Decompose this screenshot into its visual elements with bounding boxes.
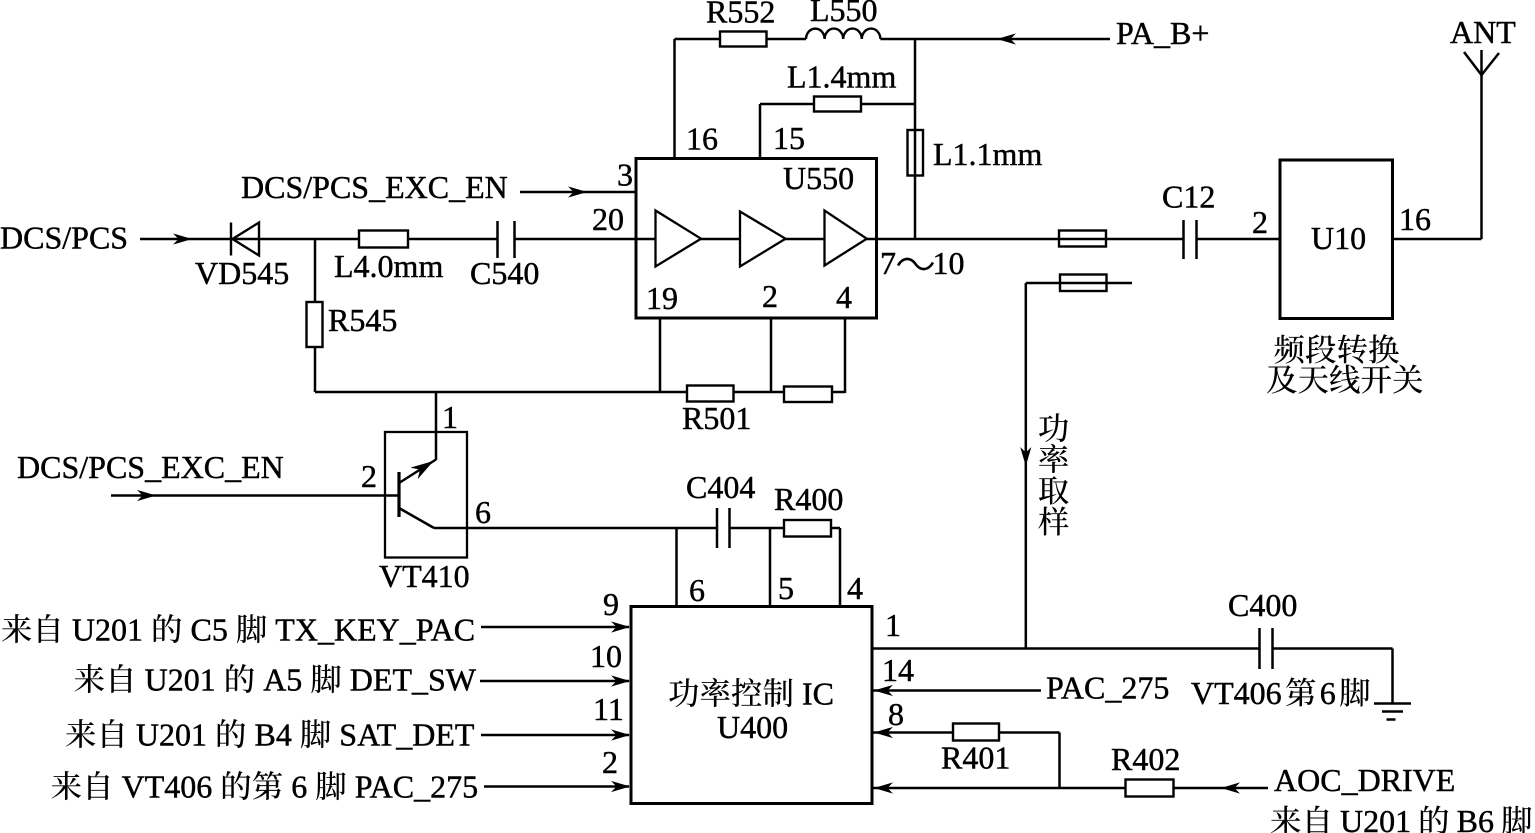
antenna symbol xyxy=(1464,52,1482,75)
capacitor C12 xyxy=(1182,220,1185,259)
wire C540 to U550 pin 20 xyxy=(515,238,638,241)
wire junction to VT410 pin 1 xyxy=(435,392,438,460)
capacitor C540 xyxy=(496,221,499,258)
op-amp IC U550 body xyxy=(636,159,877,319)
svg-text:L4.0mm: L4.0mm xyxy=(334,248,443,284)
wire U400 bottom pin from R402 xyxy=(872,787,1126,790)
resistor R501 xyxy=(687,386,734,402)
svg-text:L1.4mm: L1.4mm xyxy=(787,58,896,94)
wire R400 to U400 pin 4 xyxy=(831,527,840,530)
node A junction to R545 xyxy=(314,239,317,392)
svg-text:2: 2 xyxy=(602,744,618,780)
svg-text:PA_B+: PA_B+ xyxy=(1116,15,1209,51)
signal-flow arrow from AOC_DRIVE xyxy=(1221,782,1240,793)
svg-text:U201: U201 xyxy=(72,612,143,648)
microstrip L4.0mm xyxy=(359,231,408,248)
wire emitter pin 6 to C404 node xyxy=(434,527,717,530)
svg-text:4: 4 xyxy=(847,570,863,606)
wire bottom net from R545 xyxy=(315,391,845,394)
svg-text:16: 16 xyxy=(1399,201,1431,237)
svg-text:C400: C400 xyxy=(1228,587,1297,623)
svg-text:DCS/PCS_EXC_EN: DCS/PCS_EXC_EN xyxy=(17,449,284,485)
pin 15 wire of U550 xyxy=(759,104,762,158)
pin 16 wire of U10 to antenna xyxy=(1393,238,1482,241)
wire internal signal path U550 xyxy=(636,238,876,241)
net AOC_DRIVE source label xyxy=(1271,806,1300,833)
svg-text:C5: C5 xyxy=(191,612,228,648)
svg-text:B6: B6 xyxy=(1457,803,1494,833)
wire node B riser xyxy=(914,39,917,239)
wire power sampling line down xyxy=(1025,283,1028,649)
wire pin16 riser to R552 xyxy=(675,38,721,41)
VT410 emitter branch to pin 6 xyxy=(399,508,434,528)
microstrip L1.4mm xyxy=(814,97,861,112)
microstrip element right of R501 xyxy=(784,387,832,403)
svg-text:R400: R400 xyxy=(774,481,843,517)
svg-text:DCS/PCS_EXC_EN: DCS/PCS_EXC_EN xyxy=(241,169,508,205)
IC U10 band-switch body xyxy=(1280,160,1393,319)
ground xyxy=(1374,702,1411,705)
svg-text:VT406: VT406 xyxy=(122,769,213,805)
svg-text:U201: U201 xyxy=(1340,803,1411,833)
svg-text:8: 8 xyxy=(888,696,904,732)
svg-text:VD545: VD545 xyxy=(195,255,289,291)
svg-text:R501: R501 xyxy=(682,400,751,436)
svg-text:1: 1 xyxy=(885,607,901,643)
VT410 base bar xyxy=(397,472,400,517)
U10 function label line 1 xyxy=(1274,335,1304,364)
svg-text:6: 6 xyxy=(475,494,491,530)
svg-text:2: 2 xyxy=(361,458,377,494)
signal-flow arrow from PA_B+ xyxy=(997,33,1016,44)
inductor L550 xyxy=(806,29,880,39)
transistor VT410 body box xyxy=(385,432,467,558)
svg-text:VT410: VT410 xyxy=(379,558,470,594)
svg-text:AOC_DRIVE: AOC_DRIVE xyxy=(1274,762,1455,798)
svg-text:R545: R545 xyxy=(328,302,397,338)
net SAT_DET input label xyxy=(66,719,95,748)
svg-text:5: 5 xyxy=(778,570,794,606)
wire U400 pin 11 input xyxy=(481,734,629,737)
signal-flow arrow power sampling xyxy=(1020,447,1031,466)
svg-text:TX_KEY_PAC: TX_KEY_PAC xyxy=(275,612,475,648)
svg-text:15: 15 xyxy=(773,120,805,156)
svg-text:U550: U550 xyxy=(783,160,854,196)
wire U400 pin 8 to R401 xyxy=(872,731,953,734)
wire C12 to U10 pin 2 xyxy=(1197,238,1282,241)
svg-text:C12: C12 xyxy=(1162,179,1215,215)
svg-text:2: 2 xyxy=(762,278,778,314)
svg-text:C404: C404 xyxy=(686,469,755,505)
wire antenna riser xyxy=(1480,50,1483,239)
svg-text:R402: R402 xyxy=(1111,741,1180,777)
svg-text:U400: U400 xyxy=(717,709,788,745)
pin 2 wire of U550 xyxy=(770,318,773,392)
svg-text:C540: C540 xyxy=(470,255,539,291)
capacitor C404 xyxy=(716,508,719,548)
svg-text:20: 20 xyxy=(592,201,624,237)
svg-text:DCS/PCS: DCS/PCS xyxy=(0,220,128,256)
svg-text:SAT_DET: SAT_DET xyxy=(339,717,475,753)
net power-sampling label (vertical) xyxy=(1039,413,1068,442)
amplifier stage 1 of U550 xyxy=(656,211,702,267)
svg-text:6: 6 xyxy=(689,572,705,608)
svg-text:2: 2 xyxy=(1252,204,1268,240)
net TX_KEY_PAC input label xyxy=(2,614,31,643)
svg-text:3: 3 xyxy=(617,157,633,193)
svg-text:PAC_275: PAC_275 xyxy=(355,769,478,805)
svg-text:VT406: VT406 xyxy=(1191,675,1282,711)
wire U400 pin 10 input xyxy=(480,680,629,683)
wire U400 pin 2 input xyxy=(484,785,629,788)
svg-text:PAC_275: PAC_275 xyxy=(1046,670,1169,706)
pin 19 wire of U550 xyxy=(659,318,662,392)
net DET_SW input label xyxy=(75,664,104,693)
wire DCS/PCS input xyxy=(140,238,260,241)
svg-text:10: 10 xyxy=(933,245,965,281)
VT410 collector branch to pin 1 xyxy=(399,460,436,484)
coupled microstrip for power sampling xyxy=(1026,282,1132,285)
svg-text:A5: A5 xyxy=(263,662,302,698)
U10 function label line 2 xyxy=(1267,365,1297,393)
svg-text:6: 6 xyxy=(1320,675,1336,711)
svg-text:1: 1 xyxy=(442,399,458,435)
wire DCS/PCS_EXC_EN to U550 pin 3 xyxy=(520,191,637,194)
wire C400 to ground xyxy=(1273,647,1393,650)
resistor R552 xyxy=(720,32,767,47)
svg-text:19: 19 xyxy=(646,280,678,316)
IC U400 power control body xyxy=(631,607,872,804)
wire R402 to AOC_DRIVE xyxy=(1174,787,1269,790)
amplifier stage 3 of U550 xyxy=(825,211,867,266)
capacitor C400 xyxy=(1258,628,1261,669)
wire diode to node A xyxy=(259,238,315,241)
svg-text:U201: U201 xyxy=(145,662,216,698)
svg-text:10: 10 xyxy=(590,638,622,674)
wire R401 to AOC node xyxy=(999,731,1060,734)
U400 function label xyxy=(669,678,698,707)
svg-text:14: 14 xyxy=(882,652,914,688)
amplifier stage 2 of U550 xyxy=(740,212,786,267)
svg-text:DET_SW: DET_SW xyxy=(350,662,477,698)
wire down to U400 pin 6 xyxy=(675,528,678,607)
svg-text:B4: B4 xyxy=(255,717,292,753)
wire U400 pin 1 to C400 xyxy=(872,647,1259,650)
svg-text:11: 11 xyxy=(593,691,624,727)
resistor R402 xyxy=(1126,780,1174,797)
diode VD545 xyxy=(230,223,232,256)
pin 4 wire of U550 xyxy=(844,318,847,393)
svg-text:IC: IC xyxy=(802,676,834,712)
wire R552 to L550 xyxy=(767,38,807,41)
svg-text:7: 7 xyxy=(880,245,896,281)
svg-text:6: 6 xyxy=(291,769,307,805)
net PAC_275 input label (from VT406) xyxy=(52,771,81,800)
svg-text:R401: R401 xyxy=(941,740,1010,776)
microstrip line on output xyxy=(1059,231,1106,247)
svg-text:U201: U201 xyxy=(136,717,207,753)
wire U550 output to C12 xyxy=(876,238,1184,241)
wire U400 pin 14 input xyxy=(872,689,1041,692)
resistor R401 xyxy=(953,724,999,741)
wire L550 to PA_B+ source xyxy=(880,38,1110,41)
wire U400 pin 9 input xyxy=(481,626,629,629)
svg-text:4: 4 xyxy=(836,279,852,315)
svg-text:ANT: ANT xyxy=(1450,14,1516,50)
pin 16 wire of U550 xyxy=(673,39,676,158)
wire base of VT410 xyxy=(111,494,399,497)
svg-text:16: 16 xyxy=(686,121,718,157)
microstrip L1.1mm xyxy=(908,130,924,176)
svg-text:L550: L550 xyxy=(810,0,878,28)
wire node A to L4.0mm xyxy=(315,238,359,241)
wire L1.4mm to node B xyxy=(861,103,915,106)
resistor R400 xyxy=(784,520,831,537)
svg-text:L1.1mm: L1.1mm xyxy=(933,136,1042,172)
svg-text:9: 9 xyxy=(603,586,619,622)
wire L4.0mm to C540 xyxy=(408,238,498,241)
svg-text:U10: U10 xyxy=(1311,220,1366,256)
signal-flow arrow into base xyxy=(137,490,156,501)
resistor R545 xyxy=(307,302,323,347)
wire C404 to U400 pin 5 xyxy=(730,527,785,530)
signal-flow arrow into VD545 xyxy=(173,233,192,244)
svg-text:R552: R552 xyxy=(706,0,775,30)
wire pin15 to L1.4mm xyxy=(760,103,814,106)
